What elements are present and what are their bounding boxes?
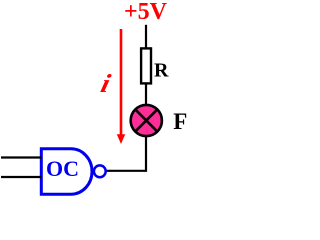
wire: resistor R to lamp F [145, 84, 147, 104]
svg-text:i: i [98, 70, 114, 99]
open-collector NAND gate U1 (body) [41, 149, 92, 194]
lamp F (indicator) [131, 105, 162, 136]
wire: +5V to resistor R [145, 25, 147, 49]
svg-text:+5V: +5V [124, 0, 168, 25]
svg-text:F: F [173, 109, 187, 134]
gate output inversion bubble [94, 165, 106, 177]
input wire B [1, 176, 41, 178]
wire: lamp F to gate output (corner) [107, 137, 147, 171]
current arrow i (line) [120, 29, 123, 135]
svg-text:R: R [154, 60, 169, 82]
input wire A [1, 156, 41, 158]
svg-text:OC: OC [46, 156, 79, 181]
current arrow i (head) [117, 134, 125, 144]
resistor R [141, 48, 151, 83]
